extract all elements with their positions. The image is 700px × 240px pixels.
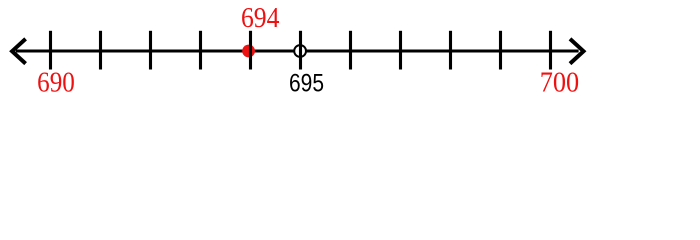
svg-text:690: 690 <box>37 67 75 98</box>
axis line <box>16 49 579 52</box>
right arrowhead <box>570 39 584 64</box>
tick 698 <box>449 31 452 70</box>
tick 690 <box>49 31 52 70</box>
number line figure 690-700 <box>0 0 700 100</box>
tick 694 <box>249 31 252 70</box>
tick 699 <box>499 31 502 70</box>
tick 697 <box>399 31 402 70</box>
open circle at 695 <box>294 45 306 57</box>
left arrowhead <box>12 39 26 64</box>
tick 696 <box>349 31 352 70</box>
tick 695 (drawn over circle) <box>299 31 302 70</box>
tick 691 <box>99 31 102 70</box>
filled point at 694 <box>242 45 255 58</box>
svg-text:695: 695 <box>289 69 324 97</box>
tick 700 <box>549 31 552 70</box>
tick 693 <box>199 31 202 70</box>
svg-text:700: 700 <box>540 67 579 98</box>
svg-text:694: 694 <box>241 3 280 34</box>
tick 692 <box>149 31 152 70</box>
